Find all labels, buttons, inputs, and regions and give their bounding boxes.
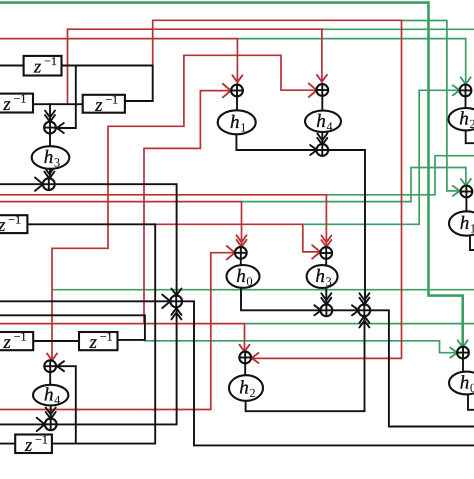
adder A4 (44, 122, 56, 134)
wire: red x=321.9 down into adder A2 top (321, 29, 323, 82)
wire: green y=20.5 from x=401.5 to x=446.9 down to adder F left (402, 21, 460, 191)
wire: red y=201.6 from x=0 to x=241.5 down into adder A6 top (0, 202, 242, 248)
svg-text:z: z (2, 94, 11, 115)
wire: green y=38.6 from x=237.4 down x=465.7 into adder E top (237, 39, 465, 85)
svg-text:h: h (460, 373, 470, 394)
svg-text:4: 4 (326, 119, 333, 133)
wire: adder C to ellipse h4 (49, 372, 51, 385)
wire: green y=201.6 from x=241.5 up at x=411 right y=167.5 down x=465.9 into adder F top (242, 168, 466, 202)
wire: adder A9 out right down at x=388.9 to right edge y=426.5 (370, 310, 474, 426)
svg-text:1: 1 (240, 120, 246, 134)
wire: green y=340.8 from x=144.9 down at x=439.5 into adder G left (145, 341, 457, 353)
svg-text:z: z (24, 435, 33, 456)
wire: input line into M2 left (0, 300, 170, 302)
wire: ellipse h4 to adder D top (50, 405, 52, 419)
wire: green y=194.8 from x=326.4 up at x=435 right at y=155.7 to edge (326, 156, 474, 195)
wire: B1 out right down at x=152.7 left into B3 right edge (62, 66, 153, 102)
coefficient h0 (mid) (227, 265, 260, 288)
coefficient h1 (top) (218, 110, 256, 134)
wire: green y=289.7 from x=52.5 to right edge (53, 289, 474, 291)
coefficient h2 (right) (449, 108, 474, 130)
adder A7 (320, 247, 332, 259)
svg-text:−1: −1 (14, 92, 27, 106)
delay z^-1 B1 (24, 56, 62, 76)
wire: adder F to ellipse h1(right) (465, 197, 467, 211)
multiplier M1 (316, 144, 328, 156)
adder A9 (358, 304, 370, 316)
wire: input to z-box B1 (0, 65, 24, 67)
coefficient h4 (left) (33, 385, 68, 406)
svg-text:h: h (239, 378, 249, 399)
svg-text:h: h (236, 266, 246, 287)
wire: row2 B2 to B3 (33, 103, 83, 105)
svg-text:−1: −1 (44, 54, 57, 68)
svg-text:h: h (44, 385, 54, 406)
wire: y=315.3 from x=0 down at x=144.9 left into B6 right edge (0, 315, 145, 340)
wire: M2 out right down at x=194 then output line y=445.4 to right edge (182, 301, 474, 445)
svg-text:0: 0 (246, 274, 252, 288)
coefficient h0 (right) (449, 372, 474, 395)
wire: branch x=50 down into adder A4 top (49, 104, 51, 122)
wire: red from x=144 y=323.6 up right y=148.4 up at x=200.4 right into adder A1 left (144, 91, 230, 324)
adder A5 (43, 178, 55, 190)
adder D (45, 418, 57, 430)
coefficient h4 (top) (305, 111, 341, 132)
svg-text:−1: −1 (100, 330, 113, 344)
svg-text:3: 3 (325, 275, 331, 289)
wire: adder A2 to ellipse h4 top (321, 96, 323, 111)
delay z^-1 B2 (0, 94, 33, 113)
wire: red y=29.2 from x=67.5 (down to row2 line) to x=321.9 (68, 29, 322, 104)
wire: adder A1 to ellipse h1 (236, 96, 238, 110)
svg-text:z: z (33, 57, 42, 78)
coefficient h2 (mid) (229, 375, 263, 401)
svg-text:2: 2 (249, 386, 255, 400)
delay z^-1 B3 (83, 95, 125, 113)
svg-text:−1: −1 (8, 213, 21, 227)
svg-text:−1: −1 (105, 92, 118, 106)
wire: red y=323.6 from x=0 to x=244.5 down into adder A10 top (0, 324, 245, 352)
delay z^-1 B4 (0, 215, 27, 233)
wire: ellipse h3 to adder A5 top (49, 169, 51, 179)
svg-text:h: h (316, 111, 326, 132)
svg-text:z: z (94, 95, 103, 116)
wire: adder A10 to ellipse h2(mid) (244, 363, 246, 375)
wire: red y=194.8 from x=0 to x=326.4 down into adder A7 top (0, 195, 326, 248)
wire: riser x=75.8 from z line up into adder C right side (57, 366, 76, 443)
delay z^-1 B6 (79, 332, 118, 350)
coefficient h3 (mid) (307, 265, 338, 288)
wire: adder G to ellipse h0(right) (462, 359, 464, 372)
wire: green y=323.6 from x=246 to right edge (246, 323, 474, 325)
svg-text:h: h (44, 147, 54, 168)
wire: adder A6 to ellipse h0(mid) (240, 259, 242, 265)
svg-text:4: 4 (54, 393, 61, 407)
adder A10 (239, 352, 251, 364)
wire: B7 out to x=155.2 up to y=224.3 left into B4 right edge (27, 224, 155, 443)
wire: M1 out right to x=365 down into adder A9 top (328, 150, 365, 305)
svg-text:h: h (459, 109, 469, 130)
wire: input line into adder A5 (0, 183, 43, 185)
wire: green y=29.3 from x=321.9 to right edge (322, 28, 474, 30)
wire: adder A8 out into adder A9 left (332, 309, 358, 311)
wire: red y=409.5 from x=0 up at x=210.8 right into adder A6 left (0, 253, 234, 410)
wire: A5 out right, down at x=176.6 into M2 top (55, 184, 177, 296)
adder C (44, 360, 56, 372)
adder A1 (231, 85, 243, 97)
wire: ellipse h0(mid) output right into adder A8 left (241, 288, 321, 311)
adder A8 (321, 304, 333, 316)
svg-text:h: h (315, 266, 325, 287)
wire: adder A7 to ellipse h3(mid) (325, 259, 327, 265)
wire: input line into adder D (0, 423, 44, 425)
svg-text:0: 0 (470, 381, 474, 395)
svg-text:h: h (460, 213, 470, 234)
delay z^-1 B7 (15, 435, 52, 454)
wire: red y=224.3 from x=156 to x=302.8 down right into adder A7 left (156, 224, 320, 252)
wire: ellipse h2(right) output to right edge (466, 130, 474, 143)
svg-text:−1: −1 (35, 432, 48, 446)
adder G (457, 347, 469, 359)
coefficient h1 (right) (449, 211, 474, 235)
adder F (461, 186, 473, 198)
wire: adder E to ellipse h2(right) (465, 96, 467, 108)
svg-text:z: z (89, 332, 98, 353)
wire: thick green feedback from top y=2.6 down x=428.5 to right-bottom adder G (0, 3, 463, 348)
multiplier M2 (170, 295, 182, 307)
svg-text:1: 1 (470, 222, 474, 236)
adder E (460, 85, 472, 97)
svg-text:3: 3 (54, 156, 60, 170)
svg-text:−1: −1 (14, 330, 27, 344)
wire: ellipse h1 output to line y=150 and M1 left (236, 134, 316, 150)
wire: red y=38.6 from x=0 to x=237.4 down into adder A1 top (0, 39, 237, 83)
wire: adder D out right up at x=176.6 into M2 bottom (57, 308, 177, 425)
svg-text:h: h (230, 112, 240, 133)
wire: row3 B5 to B6 (33, 340, 79, 342)
wire: red x=183.9 down y=126.3 left x=108 down y=248.3 left x=52 down into adder C top (52, 55, 184, 361)
wire: red feedback x=401.5 down to y=358.4 left into adder A10 right side (252, 20, 402, 358)
wire: input to z-box B7 (0, 443, 15, 445)
wire: red y=20.3 from x=152.7 to x=401.5 (153, 20, 402, 65)
wire: ellipse h0(right) output to right edge (468, 394, 474, 410)
delay z^-1 B5 (0, 332, 33, 350)
svg-text:2: 2 (469, 117, 474, 131)
svg-text:z: z (0, 215, 6, 236)
wire: branch x=75.8 down to adder A4 right side (56, 66, 75, 129)
adder A6 (235, 247, 247, 259)
svg-text:z: z (2, 332, 11, 353)
adder A2 (316, 84, 328, 96)
coefficient h3 (left) (32, 146, 70, 169)
wire: ellipse h3(mid) to adder A8 top (325, 288, 327, 305)
wire: red y=55.3 from x=183.9 to x=281 down right into adder A2 left (184, 55, 316, 90)
wire: green y=224.3 from x=302.8 up at x=419.2 right y=90.3 into adder E left (303, 90, 459, 224)
wire: ellipse h4(top) to M1 top (321, 132, 323, 145)
wire: ellipse h1(right) output to right edge (470, 236, 474, 251)
wire: ellipse h2(mid) output right up at x=364.5 into adder A9 bottom (246, 316, 365, 411)
wire: adder A4 to ellipse h3 (49, 134, 51, 147)
